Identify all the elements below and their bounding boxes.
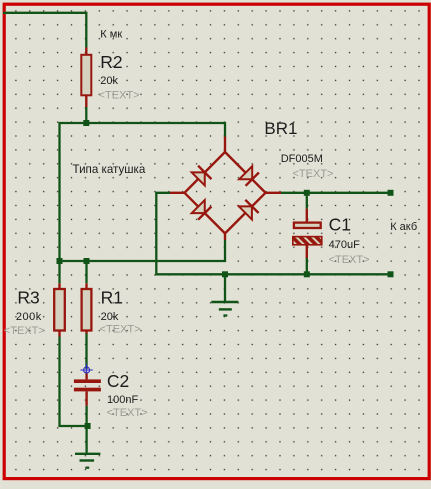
bridge rectifier BR1 diamond [185,152,266,233]
junction at R2 bottom [83,120,89,126]
svg-text:<TEXT>: <TEXT> [100,324,141,336]
ground (bottom) [75,454,100,468]
svg-text:Типа катушка: Типа катушка [73,163,146,176]
capacitor C1 (polarised) [293,195,322,273]
resistor R2 [81,48,91,108]
svg-text:<TEXT>: <TEXT> [99,90,140,102]
resistor R1 [82,261,92,334]
svg-text:R1: R1 [101,287,123,307]
svg-text:<TEXT>: <TEXT> [329,254,370,266]
junction at C1 bottom [304,271,310,277]
wire: left edge to R2 top (К мк net) [3,13,86,48]
terminal square on plus rail end [388,190,394,196]
resistor R3 [54,261,65,337]
wire: R3/R1 top rail to bridge bottom [60,240,226,261]
svg-text:<TEXT>: <TEXT> [107,407,148,419]
diode D1 (left to top) [192,166,212,186]
svg-text:<TEXT>: <TEXT> [293,168,334,180]
svg-text:C1: C1 [329,215,351,235]
wire: bridge right corner to plus rail [281,192,391,194]
junction at R3 top [57,258,63,264]
svg-text:BR1: BR1 [264,119,297,138]
junction at C1 top [304,190,310,196]
junction at ground stem on bus [222,271,228,277]
diode D4 (bottom to right) [239,200,259,220]
svg-text:К акб: К акб [390,221,417,233]
ground (bus) [211,274,238,315]
origin marker at C2 [80,364,92,376]
svg-text:470uF: 470uF [329,239,360,251]
terminal square on minus bus end [388,271,394,277]
wire: horizontal to bridge top and left branch (Типа катушка net) [60,123,226,261]
svg-text:R2: R2 [100,52,122,72]
svg-text:R3: R3 [17,287,39,307]
wire: C2 bottom to ground [85,406,87,453]
diode D3 (left to bottom) [192,200,212,220]
svg-text:20k: 20k [100,75,118,87]
svg-text:<TEXT>: <TEXT> [4,325,45,337]
junction at R1 top [84,258,90,264]
wire: R2 bottom to node [85,107,87,123]
bridge rectifier BR1 pins [170,137,281,241]
junction at R3/C2 ground join [85,423,91,429]
svg-text:200k: 200k [16,311,42,323]
svg-text:20k: 20k [101,311,119,323]
svg-text:К мк: К мк [100,28,122,40]
wire: R3 bottom to ground rail [60,337,88,427]
svg-text:DF005M: DF005M [281,153,323,165]
svg-text:C2: C2 [107,371,129,391]
wire: R1 bottom to C2 [85,334,87,370]
svg-text:100nF: 100nF [107,394,138,406]
diode D2 (top to right) [239,166,259,186]
capacitor C2 [74,374,101,406]
wire: bridge left corner to minus bus [156,193,391,274]
